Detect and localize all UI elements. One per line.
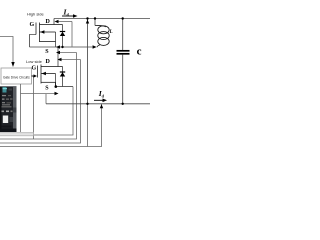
svg-text:D: D [46, 19, 51, 25]
svg-text:D: D [46, 59, 51, 65]
svg-text:G: G [32, 66, 37, 72]
svg-text:Gate Drive Circuits: Gate Drive Circuits [3, 76, 30, 80]
svg-text:G: G [30, 22, 35, 28]
svg-text:High side: High side [27, 12, 44, 17]
svg-text:c: c [137, 45, 142, 57]
svg-text:L: L [109, 30, 113, 35]
svg-text:Low side: Low side [26, 59, 43, 64]
